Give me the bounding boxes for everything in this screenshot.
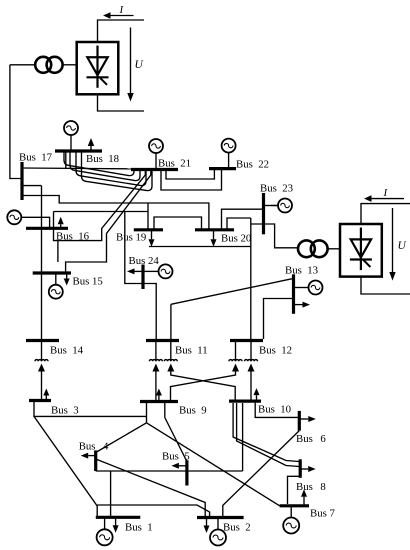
svg-text:Bus 16: Bus 16 [56,231,90,243]
svg-text:U: U [398,240,407,252]
svg-text:Bus 24: Bus 24 [129,255,160,267]
svg-text:Bus 23: Bus 23 [260,183,293,195]
svg-text:Bus 20: Bus 20 [221,233,251,245]
svg-text:Bus 19: Bus 19 [116,232,146,244]
svg-text:Bus 8: Bus 8 [296,481,326,493]
svg-text:Bus 4: Bus 4 [79,441,109,453]
svg-text:Bus 11: Bus 11 [175,345,208,357]
svg-text:Bus 13: Bus 13 [285,265,318,277]
svg-text:Bus 15: Bus 15 [73,276,103,288]
svg-text:Bus 9: Bus 9 [179,405,207,417]
svg-text:Bus 5: Bus 5 [162,451,190,463]
svg-text:Bus 18: Bus 18 [86,153,119,165]
svg-text:Bus 1: Bus 1 [125,522,153,534]
svg-text:U: U [135,59,144,71]
svg-text:Bus 17: Bus 17 [19,152,53,164]
svg-text:Bus 2: Bus 2 [223,522,251,534]
svg-text:Bus 7: Bus 7 [310,508,336,520]
svg-text:Bus 6: Bus 6 [296,433,326,445]
svg-text:Bus 10: Bus 10 [258,404,291,416]
svg-text:Bus 21: Bus 21 [158,158,191,170]
svg-text:Bus 3: Bus 3 [51,405,79,417]
svg-text:Bus 12: Bus 12 [259,345,292,357]
svg-text:Bus 22: Bus 22 [236,159,269,171]
svg-text:Bus 14: Bus 14 [50,345,84,357]
